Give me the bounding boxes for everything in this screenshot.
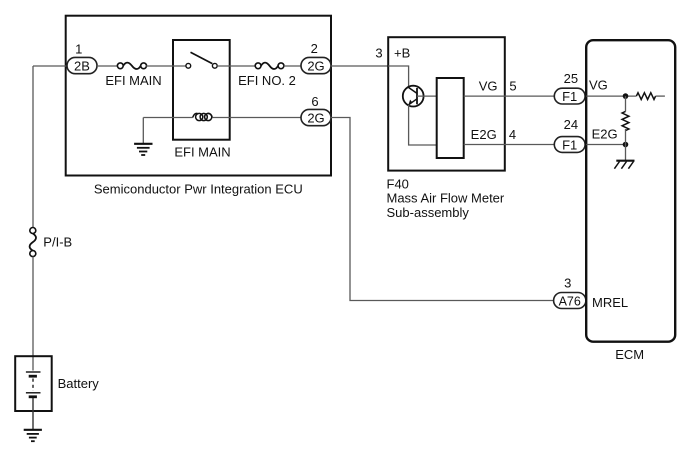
- wire VG to F1 pin 25: [505, 95, 554, 97]
- wire E2G inside ECM: [586, 144, 625, 146]
- battery B1 box: [15, 356, 52, 411]
- svg-text:3: 3: [375, 46, 382, 61]
- wire VG junction down to resistor: [625, 96, 627, 111]
- resistor R (VG pull-up horizontal): [636, 93, 655, 100]
- svg-text:2B: 2B: [74, 59, 90, 74]
- wire battery negative to ground: [32, 398, 34, 429]
- svg-text:F1: F1: [562, 137, 577, 152]
- svg-text:4: 4: [509, 127, 516, 142]
- connector pill F1 pin 24: [554, 137, 585, 153]
- relay coil L: [193, 113, 213, 120]
- svg-text:6: 6: [311, 94, 318, 109]
- svg-text:2: 2: [311, 41, 318, 56]
- svg-text:A76: A76: [559, 294, 581, 308]
- chassis ground (ECM E2G): [614, 161, 634, 169]
- wire coil ground drop: [142, 118, 144, 144]
- wire left vertical battery riser (lower): [32, 257, 34, 371]
- wire E2G to F1 pin 24: [505, 144, 554, 146]
- svg-text:MREL: MREL: [592, 295, 628, 310]
- wire +B into transistor collector: [388, 66, 408, 88]
- connector pill 2B pin 1: [67, 57, 97, 73]
- node VG junction: [623, 93, 629, 99]
- wire VG out of element: [464, 95, 505, 97]
- svg-text:P/I-B: P/I-B: [43, 235, 72, 250]
- svg-text:EFI NO. 2: EFI NO. 2: [238, 73, 296, 88]
- wire switch to relay right edge: [217, 65, 255, 67]
- wire coil to 2G pin 6: [212, 117, 301, 119]
- svg-text:E2G: E2G: [471, 127, 497, 142]
- svg-text:F1: F1: [562, 89, 577, 104]
- ECU box (Semiconductor Pwr Integration ECU): [66, 16, 331, 176]
- wire fuse EFI MAIN to relay: [146, 65, 186, 67]
- wire E2G out of element: [464, 144, 505, 146]
- sensing element rectangle: [437, 78, 464, 158]
- ground (battery): [24, 430, 42, 441]
- svg-text:VG: VG: [589, 77, 608, 92]
- wire battery feed to 2B: [33, 65, 67, 67]
- fuse P/I-B: [30, 228, 36, 257]
- svg-text:5: 5: [509, 78, 516, 93]
- svg-text:25: 25: [564, 71, 578, 86]
- switch blade: [191, 52, 213, 63]
- wire 2G pin2 to F40 +B: [331, 65, 388, 67]
- transistor Q (MAF output): [403, 86, 424, 107]
- svg-text:ECM: ECM: [615, 347, 644, 362]
- node E2G junction: [623, 142, 629, 148]
- wire resistor tail: [656, 95, 665, 97]
- relay box EFI MAIN: [173, 40, 230, 140]
- relay coil wire left: [143, 117, 192, 119]
- svg-text:VG: VG: [479, 78, 498, 93]
- svg-text:EFI MAIN: EFI MAIN: [174, 144, 230, 159]
- svg-text:3: 3: [564, 276, 571, 291]
- svg-text:+B: +B: [394, 46, 410, 61]
- wire fuse EFI NO.2 to 2G pin 2: [284, 65, 301, 67]
- fuse EFI NO. 2: [255, 63, 284, 69]
- wire E2G junction to chassis ground: [625, 145, 627, 161]
- F40 box Mass Air Flow Meter: [388, 37, 505, 170]
- connector pill 2G pin 2: [301, 57, 331, 73]
- svg-text:1: 1: [75, 42, 82, 57]
- connector pill 2G pin 6: [301, 109, 331, 125]
- ground (relay coil): [134, 144, 152, 155]
- ECM box: [586, 40, 675, 342]
- svg-text:2G: 2G: [307, 111, 324, 126]
- relay switch contacts: [186, 52, 217, 68]
- svg-text:2G: 2G: [307, 59, 324, 74]
- svg-text:F40: F40: [387, 176, 409, 191]
- svg-text:EFI MAIN: EFI MAIN: [105, 73, 161, 88]
- wire 2B to fuse EFI MAIN: [97, 65, 118, 67]
- resistor R (VG to E2G vertical): [622, 111, 629, 130]
- wire left vertical battery riser (upper): [32, 66, 34, 228]
- wire transistor base to sensing element: [417, 95, 437, 97]
- svg-text:Semiconductor Pwr Integration: Semiconductor Pwr Integration ECU: [94, 182, 303, 197]
- wire resistor to E2G junction: [625, 129, 627, 145]
- svg-text:24: 24: [564, 117, 578, 132]
- wire VG inside ECM: [586, 95, 636, 97]
- svg-text:E2G: E2G: [592, 127, 618, 142]
- fuse EFI MAIN: [117, 63, 146, 69]
- wire 2G pin6 to MREL (down + across): [331, 118, 554, 301]
- svg-text:Sub-assembly: Sub-assembly: [387, 205, 470, 220]
- connector pill F1 pin 25: [554, 88, 585, 104]
- wire transistor emitter to E2G row: [409, 105, 437, 145]
- connector pill A76 pin 3: [554, 293, 586, 309]
- battery cell plates: [26, 372, 41, 397]
- svg-text:Mass Air Flow Meter: Mass Air Flow Meter: [387, 191, 505, 206]
- svg-text:Battery: Battery: [58, 376, 100, 391]
